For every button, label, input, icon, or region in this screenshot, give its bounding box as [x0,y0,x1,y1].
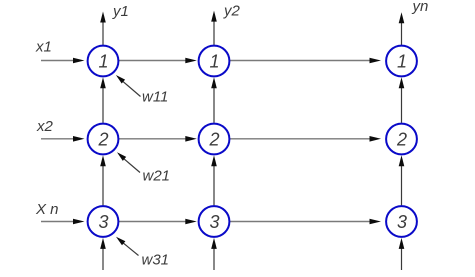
wire: row3 col2 to col3 [230,221,370,223]
node 2 col1 [88,124,119,155]
arrowhead col2 into node 1 [211,77,217,88]
svg-text:1: 1 [397,52,407,72]
svg-text:2: 2 [97,130,108,150]
wire: col3 row3 to row2 [401,164,403,205]
arrowhead input x1 [73,58,85,64]
node 3 col1 [88,206,119,237]
leader arrow w21 [123,158,140,173]
arrowhead col3 into node 2 [399,155,405,166]
arrowhead col3 into node 3 [399,238,405,249]
svg-text:3: 3 [209,212,219,232]
arrowhead output y2 [211,11,217,22]
svg-text:3: 3 [397,212,407,232]
wire: output yn [401,21,403,46]
arrowhead col3 into node 1 [399,77,405,88]
arrowhead col1 into node 3 [100,238,106,249]
wire: input line x1 [41,60,74,62]
wire: col1 bottom feed [102,247,104,270]
node 1 col1 (neuron circle) [88,46,119,77]
svg-text:x2: x2 [36,118,54,135]
node 3 col2 [199,206,230,237]
node 1 col2 [199,46,230,77]
svg-text:y2: y2 [223,3,241,20]
node 2 col3 [386,124,417,155]
arrowhead row1 col2 [185,58,197,64]
arrowhead row2 col3 [370,136,382,142]
wire: output y2 [213,19,215,45]
arrowhead row3 col2 [185,219,197,225]
wire: output y1 [102,20,104,45]
svg-text:2: 2 [396,130,407,150]
wire: col1 row3 to row2 [102,164,104,205]
wire: row1 col1 to col2 [119,60,187,62]
arrowhead col1 into node 2 [100,155,106,166]
wire: input line X n [41,221,74,223]
svg-text:1: 1 [209,52,219,72]
svg-text:w31: w31 [142,251,170,268]
svg-text:X n: X n [35,201,59,218]
svg-text:w21: w21 [143,168,171,185]
wire: col1 row2 to row1 [102,86,104,123]
wire: row2 col2 to col3 [230,138,370,140]
node 3 col3 [386,206,417,237]
node 2 col2 [199,124,230,155]
svg-text:3: 3 [98,212,108,232]
leader arrow w11 [122,81,141,97]
arrowhead col1 into node 1 [100,77,106,88]
wire: col2 row3 to row2 [213,164,215,205]
svg-text:yn: yn [412,0,429,15]
wire: col3 bottom feed [401,247,403,270]
arrowhead input x2 [73,136,85,142]
wire: input line x2 [41,138,74,140]
svg-text:x1: x1 [35,39,52,56]
leader arrow w31 [122,242,139,256]
arrowhead row2 col2 [185,136,197,142]
arrowhead output y1 [100,12,106,23]
wire: row3 col1 to col2 [119,221,187,223]
arrowhead row3 col3 [370,219,382,225]
node 1 col3 [386,46,417,77]
svg-text:w11: w11 [142,89,168,106]
wire: col3 row2 to row1 [401,86,403,123]
svg-text:2: 2 [208,130,219,150]
svg-text:1: 1 [98,52,108,72]
arrowhead col2 into node 2 [211,155,217,166]
wire: row2 col1 to col2 [119,138,187,140]
arrowhead output yn [399,12,405,23]
arrowhead col2 into node 3 [211,238,217,249]
svg-text:y1: y1 [112,3,129,20]
wire: row1 col2 to col3 [230,60,370,62]
arrowhead row1 col3 [370,58,382,64]
arrowhead input X n [73,219,85,225]
wire: col2 row2 to row1 [213,86,215,123]
wire: col2 bottom feed [213,247,215,270]
